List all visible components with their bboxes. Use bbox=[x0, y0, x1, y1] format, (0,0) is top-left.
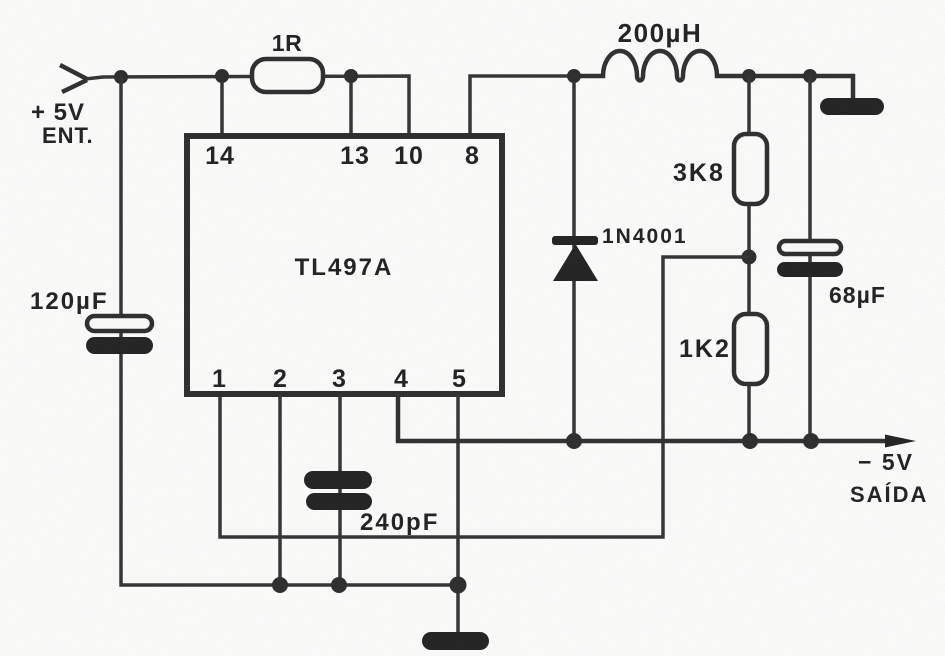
wire pin 8 up and right to diode node bbox=[470, 76, 574, 136]
node output rail diode bbox=[566, 433, 582, 449]
node inductor right bbox=[742, 69, 756, 83]
resistor R1 1R bbox=[252, 59, 323, 92]
wire pin 14 bbox=[220, 76, 224, 136]
node pin13 junction bbox=[344, 69, 358, 83]
resistor R3 1K2 bbox=[734, 314, 767, 384]
wire 3K8 branch bbox=[747, 76, 751, 441]
IC U1 TL497A body bbox=[187, 136, 502, 394]
capacitor C2 68uF bottom plate bbox=[777, 262, 843, 277]
wire top rail input to pin10 corner bbox=[85, 76, 409, 136]
label +5V ENT. bbox=[31, 99, 94, 148]
capacitor C1 120uF bottom plate bbox=[86, 337, 153, 354]
node output rail cap bbox=[803, 433, 819, 449]
wire pin 13 bbox=[349, 76, 353, 136]
node ground rail pin5 bbox=[450, 577, 467, 594]
node pin14 junction bbox=[215, 69, 229, 83]
capacitor C1 120uF branch wire bbox=[121, 76, 458, 585]
node cap branch top bbox=[803, 69, 817, 83]
input terminal +5V bbox=[60, 65, 87, 92]
output arrow head bbox=[885, 435, 916, 448]
wire feedback from divider to pin 1 bbox=[220, 257, 749, 537]
node input junction bbox=[114, 70, 128, 84]
diode D1 1N4001 cathode bar bbox=[552, 236, 598, 245]
node ground rail pin3 bbox=[331, 577, 347, 593]
capacitor C3 240pF top plate bbox=[304, 471, 372, 489]
ground symbol bottom bbox=[422, 632, 489, 650]
diode D1 1N4001 anode triangle bbox=[553, 244, 598, 281]
inductor L1 200uH bbox=[574, 51, 853, 100]
resistor R2 3K8 bbox=[734, 134, 767, 204]
node output rail divider bbox=[742, 433, 758, 449]
node inductor left bbox=[567, 69, 581, 83]
wire pin 4 down and output rail bbox=[398, 394, 888, 441]
capacitor C3 240pF bottom plate bbox=[306, 493, 372, 510]
paper texture overlay (decorative) bbox=[0, 0, 1, 1]
wire pin 5 down bbox=[456, 394, 460, 632]
wire pin 2 down bbox=[278, 394, 282, 585]
capacitor C1 120uF top plate bbox=[87, 316, 152, 331]
capacitor C2 68uF top plate bbox=[779, 241, 841, 254]
node ground rail pin2 bbox=[272, 577, 288, 593]
wire diode branch vertical bbox=[572, 76, 576, 441]
node divider junction bbox=[742, 250, 757, 265]
wire 68uF branch bbox=[808, 76, 812, 441]
wire pin 3 down bbox=[338, 394, 342, 585]
ground symbol top right bbox=[820, 98, 884, 115]
